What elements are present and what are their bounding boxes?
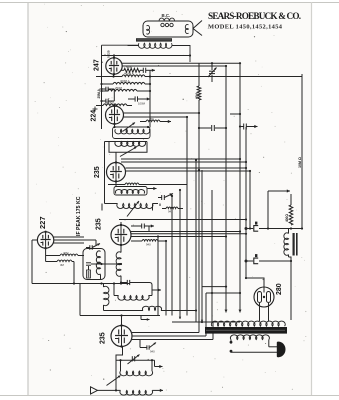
bypass capacitor loop — [102, 88, 106, 90]
output transformer T1 primary — [138, 43, 172, 48]
IF T3 tuning arrow — [127, 201, 139, 217]
svg-text:400Ω: 400Ω — [285, 214, 289, 222]
wire grid return x104 — [104, 142, 106, 204]
label 940 switch — [146, 345, 148, 349]
resistor R8 941 — [166, 207, 178, 209]
node T1 lead junction — [189, 54, 191, 56]
wire avc line y162 — [121, 161, 246, 163]
wire bus x196 — [195, 310, 197, 316]
svg-text:224: 224 — [91, 110, 98, 122]
IF T2 secondary arrow — [120, 147, 137, 157]
node osc bottom — [73, 282, 75, 284]
wire rail y293 — [206, 292, 240, 294]
svg-text:40M: 40M — [195, 93, 199, 99]
capacitor C4 with arrow — [141, 224, 143, 229]
IF T3 arrow out — [148, 188, 157, 190]
page edge left — [27, 2, 29, 396]
tube V1 247 — [106, 58, 122, 74]
wire bus x199 — [198, 63, 200, 86]
speaker socket J2 — [245, 260, 248, 263]
wire bus x226 — [225, 66, 227, 305]
resistor R4 250M — [102, 90, 109, 92]
resistor R3 400M — [102, 83, 114, 85]
wire L1 bottom — [120, 276, 122, 284]
tuning capacitor CT1 — [107, 376, 121, 386]
wire V6 top lead — [121, 316, 123, 326]
wire V4 plate line — [131, 231, 240, 233]
filter choke CH1 — [284, 233, 289, 255]
wire right rail x302 — [301, 74, 303, 228]
IF transformer T2 winding — [115, 129, 150, 134]
tap arrow y319 — [141, 319, 150, 321]
wire V6 line b — [132, 335, 206, 337]
svg-text:25M.A.: 25M.A. — [97, 88, 101, 98]
speaker voice coil left — [147, 25, 150, 34]
tube V5 227 — [37, 232, 53, 248]
svg-text:280: 280 — [276, 283, 283, 295]
wire V6 line a — [132, 332, 199, 334]
svg-text:3M: 3M — [60, 263, 65, 267]
wire bus x250 — [249, 171, 251, 229]
svg-text:400M.A.: 400M.A. — [120, 79, 131, 83]
tube V6 235 — [111, 326, 132, 347]
wire bus x212 — [211, 190, 213, 322]
wire V5 cathode drop — [45, 248, 47, 261]
wire grid return y219 — [119, 219, 246, 221]
oscillator winding — [96, 251, 100, 275]
wire V7 bottom lead — [259, 303, 261, 321]
wire V2 top lead — [114, 105, 116, 108]
wire bus x240 — [239, 63, 241, 305]
svg-text:459: 459 — [149, 117, 154, 121]
speaker cone — [193, 21, 202, 36]
wire rail y286 — [202, 286, 226, 288]
resistor R7 cathode — [125, 183, 139, 185]
oscillator coil L1 — [116, 252, 121, 276]
wire arrow y191 — [267, 191, 269, 229]
RF coil L3 — [120, 360, 122, 371]
node bus joins — [198, 112, 200, 114]
page edge right — [311, 2, 313, 396]
svg-text:10M Ω: 10M Ω — [298, 157, 302, 168]
oscillator transformer box — [83, 249, 105, 280]
wire V3 plate line y168 — [126, 167, 247, 169]
page speckle — [120, 62, 121, 63]
resistor R5 25000 — [96, 105, 103, 107]
capacitor C3 with arrow — [161, 195, 163, 200]
wire T1 right lead — [172, 46, 191, 63]
wire winding to plug — [268, 340, 270, 347]
wire bus x180 — [179, 190, 181, 319]
speaker socket J1 — [245, 227, 248, 230]
output transformer T1 core — [136, 38, 172, 41]
wire V2 screen line — [124, 116, 188, 118]
speaker hum-bucking coil — [159, 18, 175, 21]
wire osc box to coil — [91, 263, 121, 265]
IF T2 secondary frame — [109, 142, 147, 153]
capacitor C2 100M — [128, 98, 135, 100]
power transformer T4 low-voltage winding — [230, 335, 269, 340]
wire bus x246 — [245, 127, 247, 278]
wire V3 grid top lead — [115, 153, 117, 163]
svg-text:940: 940 — [146, 243, 151, 247]
svg-text:40M: 40M — [63, 251, 69, 255]
wire rail y322 — [172, 321, 240, 323]
svg-text:25000: 25000 — [106, 101, 114, 105]
oscillator padder capacitor — [86, 262, 91, 264]
resistor R13 400ohm vertical — [290, 194, 292, 205]
svg-text:0.025: 0.025 — [107, 50, 111, 58]
svg-text:IF PEAK 175 KC: IF PEAK 175 KC — [76, 196, 82, 236]
wire top bus y55 — [102, 55, 191, 57]
wire bus x202 — [201, 170, 203, 322]
svg-text:5000: 5000 — [126, 65, 133, 69]
wire V2 bottom lead — [114, 124, 116, 127]
wire V2 plate line — [124, 112, 200, 114]
wave trap arrow — [152, 289, 161, 291]
tube V2 224 — [106, 106, 124, 124]
wire bus x158 — [157, 237, 159, 316]
svg-text:227: 227 — [38, 216, 47, 229]
capacitor C1 inline — [142, 68, 144, 73]
capacitor C5 with arrow — [89, 245, 91, 250]
svg-text:SEARS-ROEBUCK & CO.: SEARS-ROEBUCK & CO. — [208, 11, 301, 21]
wire V1 cathode bus y66 — [122, 65, 226, 67]
speaker voice coil loops — [161, 23, 164, 26]
wire V5 grid right — [54, 236, 85, 238]
wire V5 plate right — [54, 242, 85, 244]
IF transformer T3 box — [114, 187, 147, 196]
wire V5 left rail — [31, 240, 33, 284]
wire V5 left lead — [32, 239, 38, 241]
page edge bottom — [0, 395, 339, 397]
wire grid rail y360 — [116, 359, 155, 361]
wire bottom bus y283 — [32, 283, 130, 285]
wire V4 lines right — [131, 236, 226, 238]
wire y261 rail — [259, 260, 291, 262]
wire stub y114 — [230, 113, 240, 115]
capacitor C9 with arrow — [240, 126, 244, 128]
trimmer capacitor C7 — [211, 63, 213, 70]
wire V1 plate to top bus — [113, 56, 115, 58]
wire V6 cathode — [116, 347, 123, 391]
oscillator trimmer — [87, 270, 91, 278]
resistor R11 3M — [57, 260, 72, 262]
IF transformer T2 tuning arrow — [123, 123, 136, 132]
power transformer T4 primary — [211, 321, 285, 326]
plus mark — [93, 108, 98, 110]
wire bus x166 — [165, 241, 167, 316]
IF transformer T3 secondary — [117, 204, 153, 209]
resistor R2 400M inline — [122, 75, 145, 77]
wire left rail x101 — [101, 45, 103, 129]
wire bus x187 — [186, 117, 188, 316]
svg-text:235: 235 — [96, 218, 103, 230]
wire V1 bottom lead — [113, 74, 115, 76]
wire V6 line c — [132, 339, 213, 341]
svg-text:400M.A.: 400M.A. — [124, 72, 135, 76]
antenna ANT — [91, 387, 98, 394]
wire V7 top lead — [246, 278, 264, 287]
node V1 plate junction — [113, 54, 115, 56]
wave trap wire — [130, 283, 152, 291]
wire y228 rail — [259, 228, 302, 230]
wire V3 screen line y171 — [126, 170, 251, 172]
wire V1 grid bus y63 — [122, 62, 240, 64]
svg-text:250M: 250M — [115, 86, 123, 90]
wire V4 grid lead — [120, 222, 122, 225]
capacitor C8 — [199, 127, 211, 129]
wire bus x172 — [171, 196, 173, 316]
svg-text:MODEL 1450,1452,1454: MODEL 1450,1452,1454 — [208, 23, 283, 30]
wire resistor right rail — [149, 70, 151, 127]
wire mains leads — [195, 316, 197, 322]
svg-text:235: 235 — [100, 332, 107, 344]
wave trap capacitor — [126, 280, 128, 285]
svg-text:940: 940 — [150, 350, 155, 354]
wire avc line y159 — [121, 158, 240, 160]
resistor R10 40M — [60, 254, 78, 256]
node bus junction — [225, 65, 227, 67]
wave trap coil — [118, 296, 149, 301]
antenna coil L4 — [120, 390, 153, 395]
speaker voice coil right — [185, 24, 188, 33]
wire mains bottom rail — [231, 351, 279, 353]
svg-text:100M: 100M — [138, 102, 146, 106]
coupling coil L5 — [103, 308, 105, 311]
svg-text:235: 235 — [94, 166, 101, 178]
resistor R12 40M vertical — [197, 86, 201, 100]
antenna coil L2 — [104, 286, 109, 305]
page edge top — [0, 2, 339, 4]
tube V3 235 — [107, 163, 126, 182]
svg-text:247: 247 — [94, 59, 101, 71]
capacitor C6 with arrow — [131, 356, 133, 361]
power transformer T4 core — [205, 327, 287, 334]
wire V3 cathode lead — [115, 182, 117, 187]
speaker SP1 field-coil housing — [143, 21, 193, 37]
wire screen bus y76 — [96, 76, 122, 78]
resistor R6 459 — [146, 120, 160, 122]
resistor R1 5000 — [121, 69, 125, 71]
switch S1 contacts — [230, 341, 233, 344]
wire V5 mid right — [54, 239, 97, 241]
wire T1 left lead — [102, 44, 140, 46]
svg-text:B.C.: B.C. — [162, 13, 171, 18]
IF T3 secondary frame — [102, 204, 153, 211]
IF transformer T2 box — [113, 127, 151, 139]
resistor R9 940 — [142, 240, 158, 242]
IF transformer T2 secondary — [105, 141, 148, 143]
tube V7 280 — [254, 287, 274, 307]
tube V4 235 — [111, 225, 131, 245]
wire drop x80 — [79, 284, 81, 316]
wire y315 rail — [80, 315, 160, 317]
AC plug P1 — [279, 342, 286, 358]
wire V4 cathode down — [120, 245, 122, 253]
